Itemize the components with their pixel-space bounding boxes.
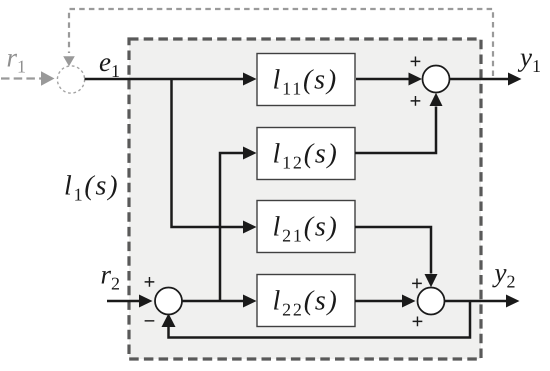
arrowhead: y2 <box>506 295 520 308</box>
dashed system boundary box l1(s) <box>129 39 481 359</box>
svg-text:y2: y2 <box>492 258 516 292</box>
svg-text:−: − <box>144 311 156 333</box>
arrowhead: l21 into S3 top <box>425 274 438 287</box>
svg-text:r1: r1 <box>7 43 27 77</box>
block l22(s) <box>257 275 355 327</box>
arrowhead: y1 <box>508 73 522 86</box>
svg-text:+: + <box>144 271 156 293</box>
wire: e1 from gray node to l11 <box>85 78 244 81</box>
arrowhead: into l22 <box>243 295 257 308</box>
block l21(s) <box>257 201 355 253</box>
summing node S2 (r2 - feedback) <box>155 288 182 315</box>
arrowhead: l22 into S3 <box>402 295 416 308</box>
arrowhead: feedback into S2 bottom <box>162 313 176 327</box>
wire: r1 input dashed gray <box>1 77 41 79</box>
wire: e2 branch up to l12 row <box>220 153 244 301</box>
wire: l11 output to summing node S1 <box>356 78 409 81</box>
arrowhead: into l12 <box>243 147 257 160</box>
summing node S1 (outputs y1) <box>423 66 450 93</box>
wire: l21 output down into S3 top <box>355 227 431 274</box>
block l11(s) <box>257 54 355 106</box>
arrowhead: r1 input <box>41 71 55 86</box>
arrowhead: r2 into summing node <box>139 295 153 308</box>
summing node (inactive, gray dashed circle) <box>57 66 84 93</box>
svg-text:+: + <box>410 90 422 112</box>
wire: l12 output up into S1 bottom <box>355 107 436 154</box>
svg-text:+: + <box>410 51 422 73</box>
wire: y1 output <box>450 78 509 81</box>
arrowhead: into S1 <box>409 73 423 86</box>
svg-text:e1: e1 <box>99 47 120 81</box>
wire: l22 output into S3 left <box>355 300 403 303</box>
svg-text:y1: y1 <box>517 42 541 76</box>
wire: e2 from S2 to l22 <box>182 300 244 303</box>
block l12(s) <box>257 128 355 180</box>
summing node S3 (outputs y2) <box>418 288 445 315</box>
svg-text:r2: r2 <box>101 260 121 294</box>
arrowhead: into l21 <box>243 221 257 234</box>
wire: y2 feedback down, left, and up into S2 bottom <box>169 301 471 338</box>
wire: y2 output <box>445 300 507 303</box>
svg-text:+: + <box>412 311 424 333</box>
svg-text:l1(s): l1(s) <box>64 171 119 205</box>
svg-text:+: + <box>411 273 423 295</box>
arrowhead: into l11 <box>243 73 257 86</box>
wire: gray feedback loop from y1 line around top to summing node <box>69 9 493 76</box>
wire: e1 branch down to l21 row <box>172 79 244 227</box>
wire: r2 input <box>107 300 140 303</box>
arrowhead: l12 into S1 bottom <box>430 93 443 106</box>
arrowhead: gray loop into summing node top <box>63 56 75 66</box>
